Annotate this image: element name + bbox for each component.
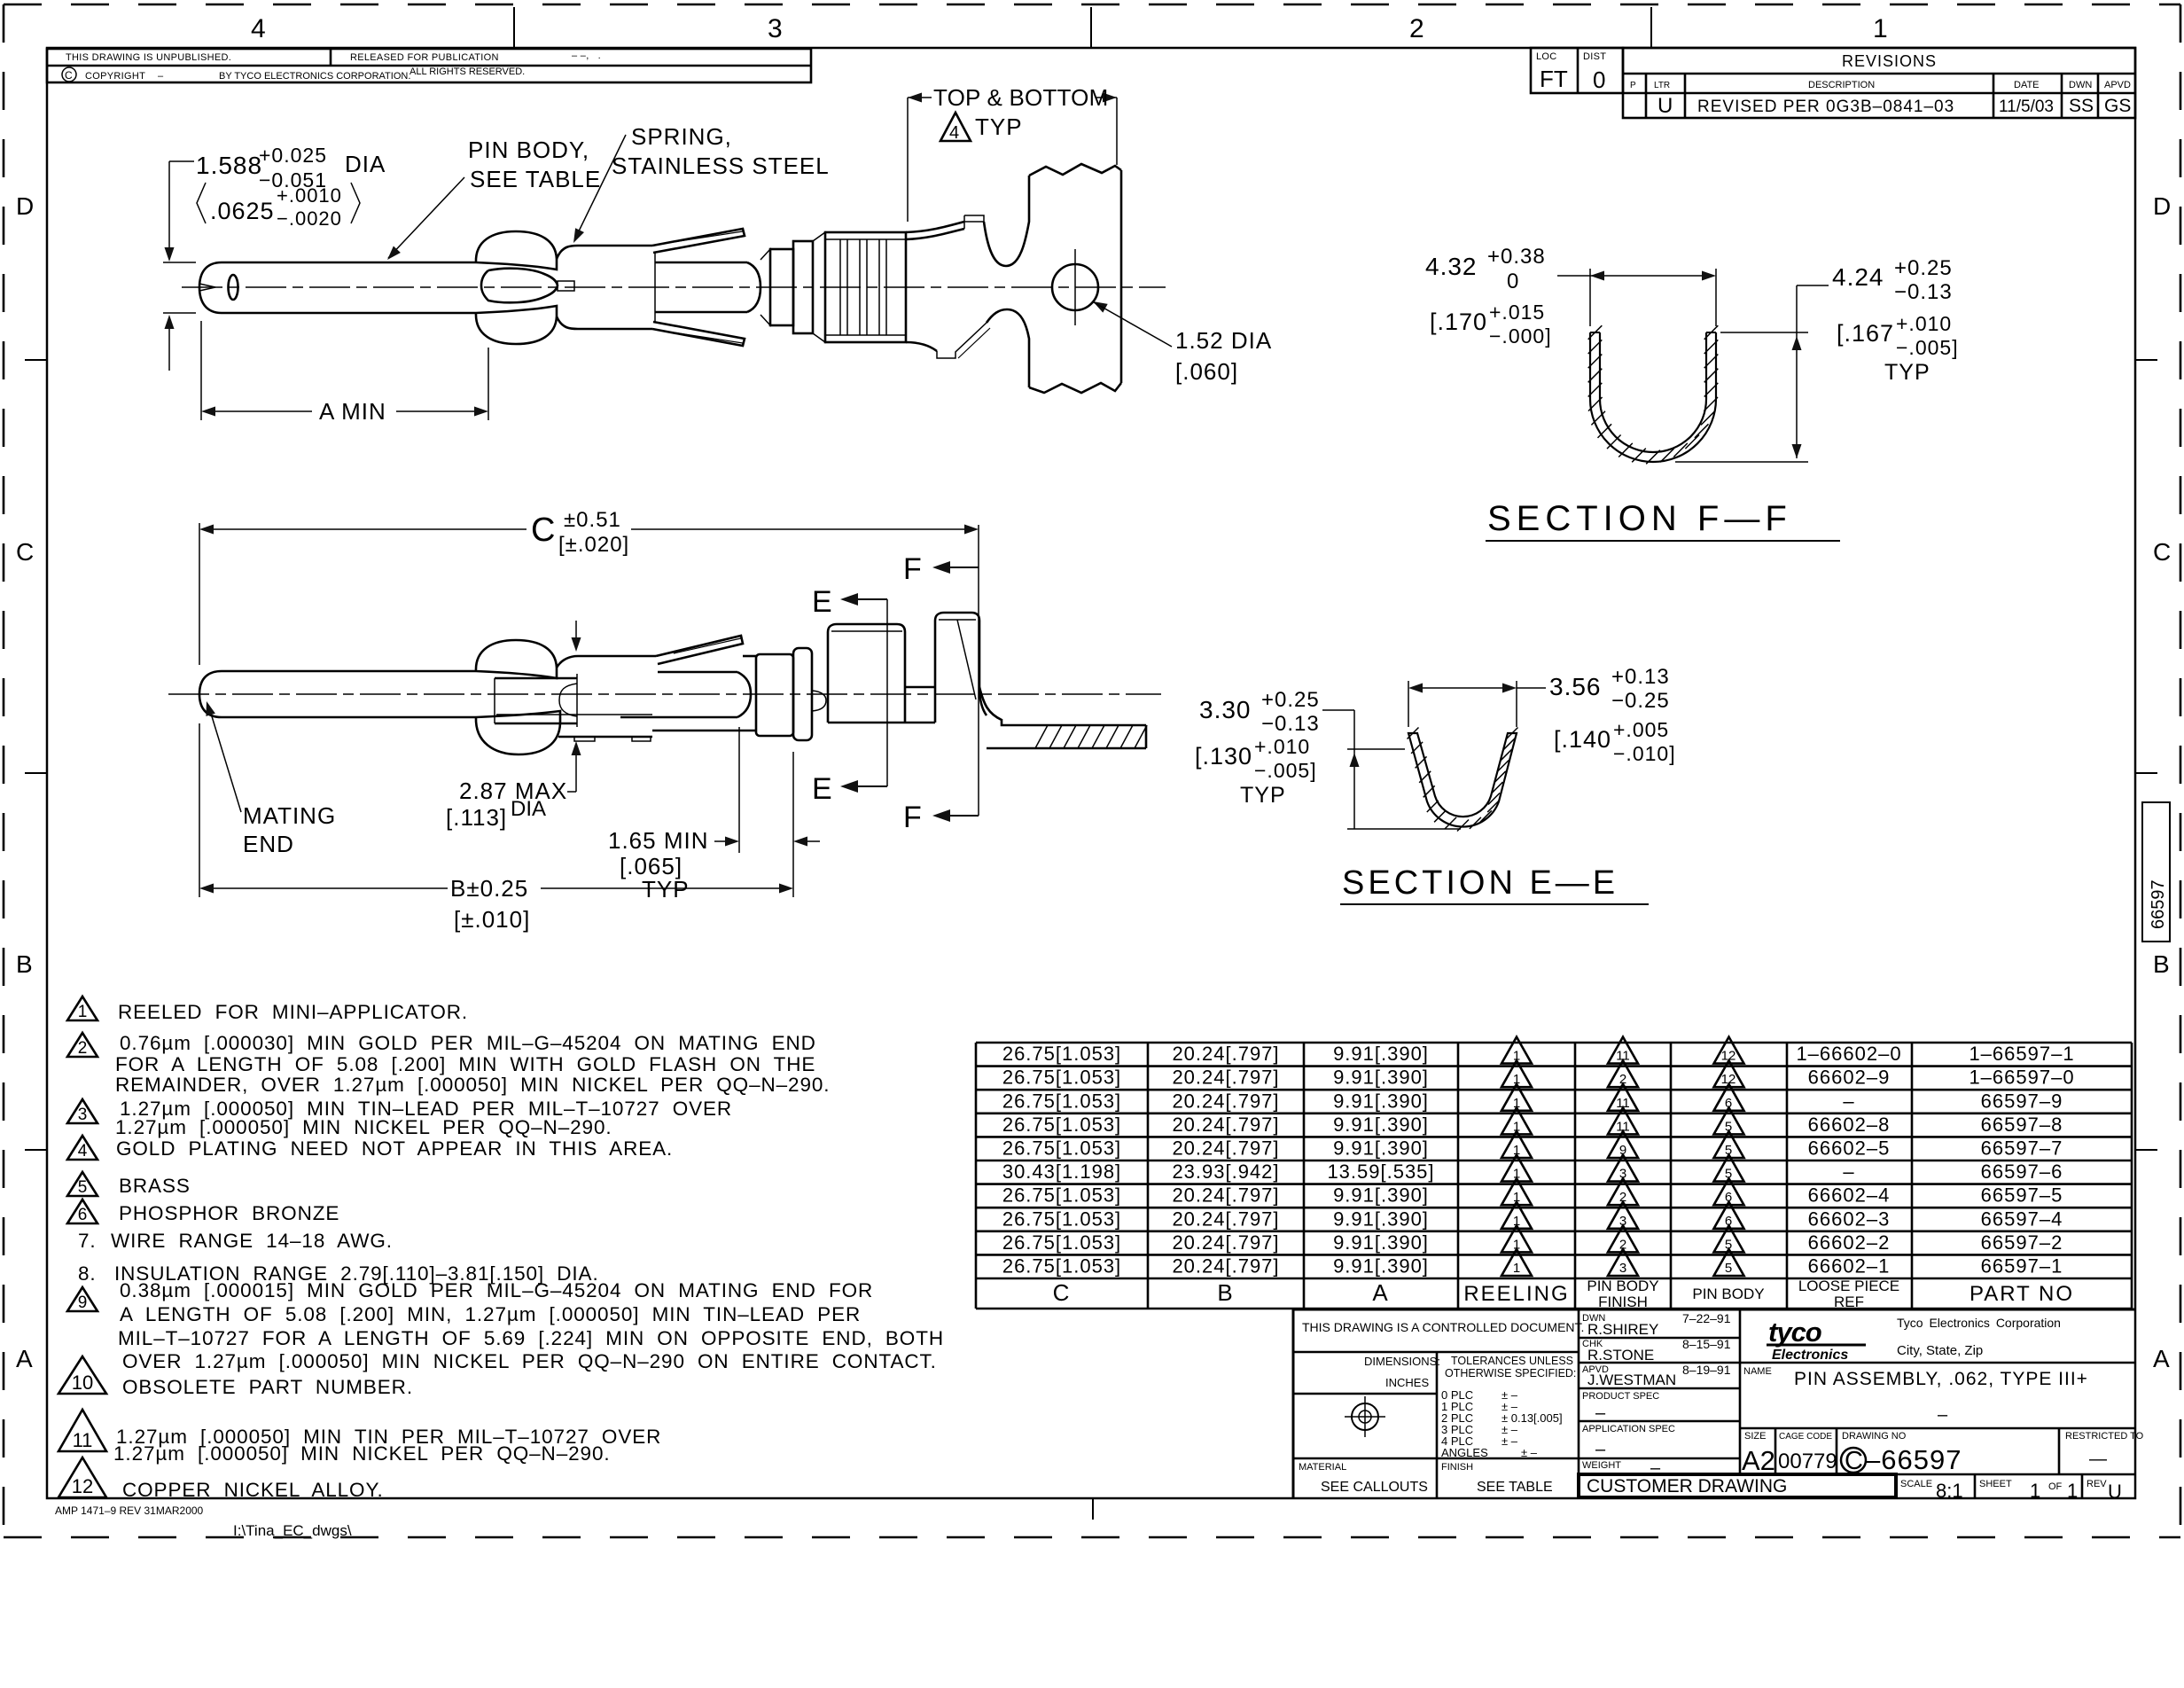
- svg-text:DESCRIPTION: DESCRIPTION: [1808, 80, 1875, 90]
- svg-text:11: 11: [1616, 1049, 1630, 1064]
- mating end leader: [208, 705, 241, 812]
- svg-text:6: 6: [1725, 1096, 1732, 1111]
- svg-text:OBSOLETE PART NUMBER.: OBSOLETE PART NUMBER.: [122, 1376, 413, 1398]
- section E-E crimp cup: [1408, 733, 1517, 827]
- svg-text:P: P: [1630, 81, 1636, 90]
- svg-text:11: 11: [1616, 1119, 1630, 1134]
- svg-text:[.140: [.140: [1554, 726, 1611, 753]
- svg-text:–: –: [1595, 1403, 1606, 1423]
- svg-text:OTHERWISE SPECIFIED:: OTHERWISE SPECIFIED:: [1445, 1367, 1576, 1379]
- svg-text:Electronics: Electronics: [1772, 1348, 1848, 1363]
- svg-text:9.91[.390]: 9.91[.390]: [1333, 1114, 1429, 1136]
- dim B: [199, 723, 200, 897]
- svg-text:BRASS: BRASS: [119, 1175, 191, 1197]
- svg-text:INCHES: INCHES: [1385, 1376, 1429, 1389]
- dim C: [199, 523, 200, 665]
- svg-text:26.75[1.053]: 26.75[1.053]: [1002, 1043, 1121, 1065]
- svg-text:5: 5: [78, 1178, 88, 1197]
- svg-text:REELING: REELING: [1463, 1282, 1569, 1306]
- dim 3.30: [1322, 709, 1354, 711]
- svg-text:11/5/03: 11/5/03: [1999, 98, 2054, 116]
- section F-F crimp cup: [1590, 332, 1716, 462]
- svg-text:City, State, Zip: City, State, Zip: [1897, 1343, 1983, 1358]
- svg-text:A: A: [2153, 1345, 2170, 1372]
- svg-text:20.24[.797]: 20.24[.797]: [1172, 1255, 1279, 1278]
- svg-text:66602–3: 66602–3: [1808, 1207, 1891, 1230]
- svg-text:[.113]: [.113]: [446, 804, 507, 831]
- svg-text:U: U: [1657, 94, 1673, 118]
- svg-text:−.010]: −.010]: [1613, 742, 1676, 765]
- svg-text:DIMENSIONS:: DIMENSIONS:: [1364, 1355, 1440, 1368]
- svg-text:1: 1: [1513, 1072, 1520, 1087]
- spring fork arms view1: [652, 229, 745, 253]
- svg-text:REELED FOR MINI–APPLICATOR.: REELED FOR MINI–APPLICATOR.: [118, 1001, 468, 1023]
- svg-text:[.060]: [.060]: [1175, 358, 1238, 385]
- svg-text:+0.13: +0.13: [1611, 665, 1670, 689]
- leader 1.52 DIA: [1093, 301, 1108, 313]
- svg-text:PIN BODY,: PIN BODY,: [468, 137, 589, 163]
- svg-text:SCALE: SCALE: [1900, 1479, 1932, 1489]
- svg-text:[±.010]: [±.010]: [454, 906, 530, 933]
- svg-text:20.24[.797]: 20.24[.797]: [1172, 1067, 1279, 1089]
- svg-text:PIN ASSEMBLY, .062, TYPE I: PIN ASSEMBLY, .062, TYPE III+: [1794, 1369, 2088, 1389]
- notes list: [58, 996, 944, 1501]
- svg-text:A: A: [1372, 1279, 1389, 1306]
- svg-text:1.52 DIA: 1.52 DIA: [1175, 327, 1272, 354]
- svg-text:U: U: [2108, 1481, 2122, 1503]
- svg-text:1.27µm [.000050] MIN NICKEL: 1.27µm [.000050] MIN NICKEL PER QQ–N–290…: [113, 1442, 611, 1465]
- hook after ring view2: [812, 691, 826, 711]
- svg-text:PIN BODY: PIN BODY: [1692, 1286, 1764, 1302]
- svg-text:TYP: TYP: [642, 876, 690, 903]
- svg-text:−.000]: −.000]: [1489, 324, 1552, 348]
- svg-text:26.75[1.053]: 26.75[1.053]: [1002, 1137, 1121, 1160]
- svg-text:B: B: [1217, 1279, 1234, 1306]
- svg-text:1: 1: [1513, 1190, 1520, 1205]
- svg-text:R.STONE: R.STONE: [1587, 1347, 1654, 1364]
- svg-text:13.59[.535]: 13.59[.535]: [1327, 1160, 1434, 1183]
- svg-text:66597–5: 66597–5: [1981, 1184, 2063, 1207]
- svg-text:GOLD PLATING NEED NOT APPE: GOLD PLATING NEED NOT APPEAR IN THIS ARE…: [116, 1137, 673, 1160]
- svg-text:1–66602–0: 1–66602–0: [1796, 1043, 1901, 1065]
- svg-text:RELEASED FOR PUBLICATION: RELEASED FOR PUBLICATION: [350, 52, 499, 63]
- svg-text:SECTION F—F: SECTION F—F: [1487, 499, 1792, 538]
- svg-text:MATERIAL: MATERIAL: [1299, 1462, 1346, 1473]
- section F-F title: [1486, 540, 1840, 542]
- svg-text:B: B: [2153, 950, 2170, 978]
- svg-text:RESTRICTED TO: RESTRICTED TO: [2065, 1431, 2144, 1442]
- svg-text:[.130: [.130: [1195, 743, 1252, 770]
- svg-text:– –, .: – –, .: [572, 51, 601, 61]
- svg-text:+0.025: +0.025: [259, 144, 327, 167]
- svg-text:20.24[.797]: 20.24[.797]: [1172, 1043, 1279, 1065]
- svg-text:20.24[.797]: 20.24[.797]: [1172, 1090, 1279, 1112]
- svg-text:[±.020]: [±.020]: [558, 533, 629, 557]
- carrier hole view1: [1052, 264, 1098, 310]
- centerline view1: [182, 286, 1166, 288]
- svg-text:SEE TABLE: SEE TABLE: [470, 166, 601, 192]
- svg-text:MIL–T–10727 FOR A LENGTH O: MIL–T–10727 FOR A LENGTH OF 5.69 [.224] …: [118, 1327, 944, 1349]
- svg-text:1–66597–0: 1–66597–0: [1969, 1067, 2074, 1089]
- svg-text:NAME: NAME: [1743, 1366, 1772, 1377]
- svg-text:C: C: [2153, 538, 2171, 566]
- section cut F-F: [978, 525, 979, 816]
- svg-text:2: 2: [78, 1039, 88, 1058]
- svg-text:9.91[.390]: 9.91[.390]: [1333, 1043, 1429, 1065]
- svg-text:5: 5: [1725, 1261, 1732, 1276]
- svg-text:FT: FT: [1540, 66, 1568, 92]
- svg-text:3: 3: [1619, 1214, 1626, 1229]
- revisions block: [1531, 48, 2135, 118]
- svg-text:[.167: [.167: [1837, 320, 1894, 347]
- svg-text:6: 6: [78, 1206, 88, 1224]
- svg-text:D: D: [16, 192, 34, 220]
- dim TOP & BOTTOM: [907, 98, 909, 222]
- svg-text:66597–9: 66597–9: [1981, 1090, 2063, 1112]
- svg-text:DIA: DIA: [345, 151, 386, 177]
- section E-E insulation barrel crimp: [1195, 0, 2184, 904]
- svg-text:11: 11: [1616, 1096, 1630, 1111]
- svg-text:[.170: [.170: [1430, 309, 1487, 335]
- svg-text:ANGLES: ANGLES: [1441, 1446, 1488, 1459]
- svg-text:7.: 7.: [78, 1230, 97, 1252]
- svg-text:9.91[.390]: 9.91[.390]: [1333, 1184, 1429, 1207]
- svg-text:2: 2: [1619, 1237, 1626, 1252]
- svg-text:66597–2: 66597–2: [1981, 1231, 2063, 1254]
- spring front bulb view1: [476, 231, 557, 270]
- svg-text:−0.13: −0.13: [1261, 712, 1320, 736]
- svg-text:FINISH: FINISH: [1441, 1462, 1473, 1473]
- svg-text:30.43[1.198]: 30.43[1.198]: [1002, 1160, 1121, 1183]
- svg-text:TYP: TYP: [1240, 783, 1286, 808]
- svg-text:66597: 66597: [2149, 879, 2168, 929]
- svg-text:PART NO: PART NO: [1969, 1282, 2074, 1306]
- svg-text:REVISIONS: REVISIONS: [1842, 52, 1937, 70]
- svg-text:+0.25: +0.25: [1894, 256, 1953, 280]
- svg-text:A: A: [16, 1345, 33, 1372]
- svg-text:APPLICATION SPEC: APPLICATION SPEC: [1582, 1424, 1675, 1434]
- inner barrel view2: [658, 671, 737, 674]
- svg-text:12: 12: [1721, 1072, 1736, 1087]
- svg-text:SEE TABLE: SEE TABLE: [1477, 1480, 1553, 1495]
- svg-text:C: C: [1053, 1279, 1072, 1306]
- svg-text:TOLERANCES UNLESS: TOLERANCES UNLESS: [1451, 1355, 1573, 1367]
- svg-text:26.75[1.053]: 26.75[1.053]: [1002, 1114, 1121, 1136]
- svg-text:1: 1: [1513, 1237, 1520, 1252]
- svg-text:SPRING,: SPRING,: [631, 123, 732, 150]
- pin assembly view 2 (side view): [168, 508, 1161, 933]
- svg-text:+.015: +.015: [1489, 301, 1545, 324]
- svg-text:B±0.25: B±0.25: [450, 875, 528, 902]
- svg-text:A2: A2: [1742, 1445, 1775, 1476]
- svg-text:0: 0: [1593, 66, 1605, 93]
- svg-text:TYP: TYP: [1884, 360, 1930, 385]
- svg-text:R.SHIREY: R.SHIREY: [1587, 1321, 1658, 1338]
- svg-text:9.91[.390]: 9.91[.390]: [1333, 1255, 1429, 1278]
- svg-text:8:1: 8:1: [1936, 1480, 1963, 1502]
- svg-text:3.56: 3.56: [1549, 673, 1602, 700]
- svg-text:DRAWING NO: DRAWING NO: [1842, 1431, 1907, 1442]
- spring body view1: [557, 246, 652, 259]
- svg-text:DIST: DIST: [1583, 51, 1606, 62]
- svg-text:Tyco Electronics Corporation: Tyco Electronics Corporation: [1897, 1316, 2061, 1330]
- svg-text:20.24[.797]: 20.24[.797]: [1172, 1114, 1279, 1136]
- svg-text:D: D: [2153, 192, 2171, 220]
- dim 1.588 DIA: [163, 262, 196, 263]
- svg-text:3: 3: [768, 14, 783, 43]
- svg-text:1: 1: [1513, 1214, 1520, 1229]
- svg-text:THIS DRAWING IS UNPUBLISHED: THIS DRAWING IS UNPUBLISHED.: [66, 52, 231, 63]
- svg-text:FOR A LENGTH OF 5.08 [.20: FOR A LENGTH OF 5.08 [.200] MIN WITH GOL…: [115, 1053, 815, 1075]
- wire barrel view1: [813, 232, 825, 342]
- svg-text:DWN: DWN: [2069, 80, 2092, 90]
- svg-text:THIS DRAWING IS A CONTROLLED D: THIS DRAWING IS A CONTROLLED DOCUMENT.: [1302, 1320, 1584, 1334]
- pin assembly view 1 (reeled strip view): [163, 84, 1272, 425]
- svg-text:SECTION E—E: SECTION E—E: [1342, 864, 1618, 902]
- svg-text:REF: REF: [1834, 1293, 1864, 1310]
- svg-text:+.010: +.010: [1896, 312, 1952, 335]
- svg-text:66602–4: 66602–4: [1808, 1184, 1891, 1207]
- svg-text:66602–2: 66602–2: [1808, 1231, 1891, 1254]
- dim 3.56: [1408, 681, 1409, 727]
- svg-text:1: 1: [1513, 1096, 1520, 1111]
- svg-text:4.32: 4.32: [1425, 253, 1478, 280]
- svg-text:LOC: LOC: [1536, 51, 1557, 62]
- svg-text:+.0010: +.0010: [277, 184, 342, 207]
- svg-text:COPYRIGHT: COPYRIGHT: [85, 71, 145, 82]
- svg-text:6: 6: [1725, 1214, 1732, 1229]
- svg-text:66602–9: 66602–9: [1808, 1067, 1891, 1089]
- svg-text:REVISED PER 0G3B–0841–03: REVISED PER 0G3B–0841–03: [1697, 98, 1954, 116]
- svg-text:4: 4: [949, 123, 959, 143]
- svg-text:+.005: +.005: [1613, 718, 1669, 741]
- svg-text:+0.38: +0.38: [1487, 245, 1546, 269]
- svg-text:F: F: [903, 801, 922, 834]
- svg-text:−.005]: −.005]: [1254, 759, 1317, 782]
- pin rod view2: [199, 671, 476, 717]
- svg-text:—: —: [2089, 1450, 2107, 1469]
- svg-text:7–22–91: 7–22–91: [1682, 1311, 1731, 1325]
- svg-text:1: 1: [2030, 1480, 2040, 1502]
- collar bands view1: [760, 249, 770, 325]
- collar view2: [756, 654, 793, 736]
- svg-text:12: 12: [1721, 1049, 1736, 1064]
- title block: [1293, 1309, 2144, 1503]
- svg-text:–: –: [158, 71, 164, 82]
- svg-text:66597–1: 66597–1: [1981, 1255, 2063, 1278]
- svg-text:PHOSPHOR BRONZE: PHOSPHOR BRONZE: [119, 1202, 339, 1224]
- copyright block: [47, 49, 811, 82]
- svg-text:E: E: [812, 585, 832, 619]
- svg-text:1: 1: [1513, 1119, 1520, 1134]
- svg-text:–: –: [1843, 1160, 1854, 1183]
- dim A MIN: [200, 321, 202, 420]
- dim .0625 bracket: [197, 183, 206, 223]
- svg-text:ALL RIGHTS RESERVED.: ALL RIGHTS RESERVED.: [409, 66, 525, 77]
- svg-text:3: 3: [1619, 1261, 1626, 1276]
- section E-E title: [1340, 903, 1649, 905]
- svg-text:SEE CALLOUTS: SEE CALLOUTS: [1321, 1480, 1428, 1495]
- svg-text:26.75[1.053]: 26.75[1.053]: [1002, 1207, 1121, 1230]
- svg-text:tyco: tyco: [1768, 1317, 1821, 1348]
- svg-text:20.24[.797]: 20.24[.797]: [1172, 1231, 1279, 1254]
- upper arm view2: [656, 636, 743, 664]
- centerline view2: [168, 693, 1161, 695]
- svg-text:3: 3: [1619, 1167, 1626, 1182]
- svg-text:2: 2: [1409, 14, 1424, 43]
- svg-text:.0625: .0625: [210, 198, 275, 224]
- svg-text:C: C: [16, 538, 34, 566]
- svg-text:9: 9: [78, 1293, 88, 1312]
- dim 1.65 MIN: [738, 727, 740, 853]
- dim 4.32: [1589, 269, 1591, 326]
- svg-text:−.0020: −.0020: [277, 207, 342, 230]
- svg-text:5: 5: [1725, 1167, 1732, 1182]
- section cut E-E: [886, 599, 888, 786]
- svg-text:10: 10: [72, 1371, 93, 1394]
- svg-text:+.010: +.010: [1254, 735, 1310, 758]
- svg-text:SHEET: SHEET: [1979, 1479, 2012, 1489]
- svg-text:SIZE: SIZE: [1744, 1431, 1766, 1442]
- svg-text:66602–8: 66602–8: [1808, 1114, 1891, 1136]
- svg-text:1: 1: [1873, 14, 1888, 43]
- body top edge view2: [557, 656, 656, 668]
- wire barrel box view2: [828, 624, 905, 723]
- svg-text:26.75[1.053]: 26.75[1.053]: [1002, 1231, 1121, 1254]
- transition to paddle view1: [906, 222, 964, 232]
- svg-text:1: 1: [78, 1003, 88, 1021]
- svg-text:DATE: DATE: [2014, 80, 2040, 90]
- svg-text:REMAINDER, OVER 1.27µm [.00: REMAINDER, OVER 1.27µm [.000050] MIN NIC…: [115, 1074, 830, 1096]
- svg-text:C: C: [531, 512, 555, 549]
- svg-text:C: C: [65, 69, 73, 82]
- bent tail view2: [979, 687, 1146, 725]
- svg-text:3: 3: [78, 1106, 88, 1124]
- svg-text:−0.25: −0.25: [1611, 689, 1670, 713]
- svg-text:2: 2: [1619, 1072, 1626, 1087]
- svg-text:SS: SS: [2069, 96, 2094, 116]
- svg-text:23.93[.942]: 23.93[.942]: [1172, 1160, 1279, 1183]
- svg-text:4.24: 4.24: [1832, 263, 1884, 291]
- insulation barrel box view2: [935, 613, 987, 723]
- svg-text:GS: GS: [2104, 96, 2131, 116]
- svg-text:12: 12: [72, 1475, 93, 1497]
- svg-text:CUSTOMER DRAWING: CUSTOMER DRAWING: [1587, 1476, 1787, 1497]
- svg-text:20.24[.797]: 20.24[.797]: [1172, 1137, 1279, 1160]
- svg-text:9.91[.390]: 9.91[.390]: [1333, 1090, 1429, 1112]
- svg-text:9.91[.390]: 9.91[.390]: [1333, 1207, 1429, 1230]
- lower transition view1: [906, 342, 937, 351]
- svg-text:66602–1: 66602–1: [1808, 1255, 1891, 1278]
- svg-text:WEIGHT: WEIGHT: [1582, 1460, 1621, 1471]
- svg-text:5: 5: [1725, 1119, 1732, 1134]
- svg-text:E: E: [812, 772, 832, 806]
- svg-text:20.24[.797]: 20.24[.797]: [1172, 1184, 1279, 1207]
- svg-text:8–19–91: 8–19–91: [1682, 1363, 1731, 1377]
- svg-text:9.91[.390]: 9.91[.390]: [1333, 1231, 1429, 1254]
- dim 2.87 MAX DIA: [575, 621, 577, 648]
- svg-text:END: END: [243, 831, 294, 857]
- spring window view2: [495, 677, 577, 680]
- svg-text:8.: 8.: [78, 1262, 97, 1285]
- leader PIN BODY: [388, 177, 464, 258]
- svg-text:1: 1: [2067, 1480, 2078, 1502]
- svg-text:–66597: –66597: [1865, 1444, 1962, 1475]
- leader SPRING: [574, 135, 626, 240]
- svg-text:DIA: DIA: [511, 797, 546, 821]
- svg-text:4: 4: [251, 14, 266, 43]
- svg-text:2: 2: [1619, 1190, 1626, 1205]
- svg-text:±0.51: ±0.51: [564, 508, 621, 532]
- triangle 4 flag: [940, 113, 971, 141]
- svg-text:1: 1: [1513, 1143, 1520, 1158]
- svg-text:1.65 MIN: 1.65 MIN: [608, 827, 709, 854]
- svg-text:1.588: 1.588: [196, 152, 262, 179]
- lower spring bar view2: [496, 714, 652, 715]
- svg-text:J.WESTMAN: J.WESTMAN: [1587, 1371, 1676, 1388]
- svg-text:OF: OF: [2048, 1481, 2063, 1492]
- svg-text:LTR: LTR: [1654, 81, 1670, 90]
- svg-text:66597–8: 66597–8: [1981, 1114, 2063, 1136]
- svg-text:9.91[.390]: 9.91[.390]: [1333, 1137, 1429, 1160]
- pin body inner barrel view1: [655, 262, 747, 264]
- svg-text:8–15–91: 8–15–91: [1682, 1337, 1731, 1351]
- svg-text:−0.13: −0.13: [1894, 280, 1953, 304]
- svg-text:6: 6: [1725, 1190, 1732, 1205]
- svg-text:REV: REV: [2086, 1479, 2107, 1489]
- svg-text:1–66597–1: 1–66597–1: [1969, 1043, 2074, 1065]
- svg-text:FINISH: FINISH: [1598, 1293, 1648, 1310]
- spring bulb view2: [476, 640, 557, 678]
- svg-text:0.38µm [.000015] MIN GOLD: 0.38µm [.000015] MIN GOLD PER MIL–G–4520…: [120, 1279, 873, 1301]
- svg-text:66602–5: 66602–5: [1808, 1137, 1891, 1160]
- svg-text:66597–7: 66597–7: [1981, 1137, 2063, 1160]
- svg-text:PIN BODY: PIN BODY: [1587, 1278, 1658, 1294]
- svg-text:66597–6: 66597–6: [1981, 1160, 2063, 1183]
- svg-text:BY TYCO ELECTRONICS CORPORA: BY TYCO ELECTRONICS CORPORATION.: [219, 71, 410, 82]
- svg-text:26.75[1.053]: 26.75[1.053]: [1002, 1067, 1121, 1089]
- svg-text:5: 5: [1725, 1143, 1732, 1158]
- svg-text:0.76µm [.000030] MIN GOLD: 0.76µm [.000030] MIN GOLD PER MIL–G–4520…: [120, 1032, 816, 1054]
- svg-text:9: 9: [1619, 1143, 1626, 1158]
- svg-text:WIRE RANGE 14–18 AWG.: WIRE RANGE 14–18 AWG.: [111, 1230, 393, 1252]
- svg-text:APVD: APVD: [2104, 80, 2131, 90]
- svg-text:COPPER NICKEL ALLOY.: COPPER NICKEL ALLOY.: [122, 1479, 384, 1501]
- svg-text:OVER 1.27µm [.000050] MIN: OVER 1.27µm [.000050] MIN NICKEL PER QQ–…: [122, 1350, 937, 1372]
- svg-text:3.30: 3.30: [1199, 696, 1252, 723]
- neck view2: [743, 655, 756, 658]
- svg-text:–: –: [1595, 1440, 1606, 1459]
- svg-text:26.75[1.053]: 26.75[1.053]: [1002, 1255, 1121, 1278]
- svg-text:+0.25: +0.25: [1261, 688, 1320, 712]
- svg-text:–: –: [1843, 1090, 1854, 1112]
- svg-text:–: –: [1938, 1405, 1948, 1425]
- parts selection table: [976, 1037, 2132, 1310]
- svg-text:AMP 1471–9 REV 31MAR2000: AMP 1471–9 REV 31MAR2000: [55, 1504, 204, 1517]
- svg-text:CAGE CODE: CAGE CODE: [1779, 1432, 1832, 1442]
- svg-text:1.27µm [.000050] MIN NICKEL: 1.27µm [.000050] MIN NICKEL PER QQ–N–290…: [115, 1116, 612, 1138]
- svg-text:B: B: [16, 950, 33, 978]
- svg-text:4: 4: [78, 1142, 88, 1160]
- svg-text:0: 0: [1507, 270, 1519, 293]
- svg-text:66597–4: 66597–4: [1981, 1207, 2063, 1230]
- svg-text:26.75[1.053]: 26.75[1.053]: [1002, 1090, 1121, 1112]
- svg-text:1: 1: [1513, 1049, 1520, 1064]
- svg-text:LOOSE PIECE: LOOSE PIECE: [1798, 1278, 1899, 1294]
- svg-text:TYP: TYP: [975, 113, 1023, 140]
- svg-text:I:\Tina_EC_dwgs\: I:\Tina_EC_dwgs\: [233, 1522, 352, 1539]
- svg-text:5: 5: [1725, 1237, 1732, 1252]
